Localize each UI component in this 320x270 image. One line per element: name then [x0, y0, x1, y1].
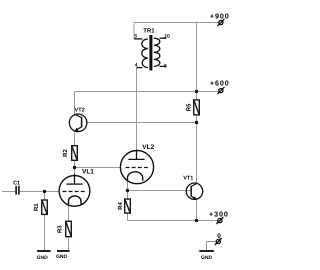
- svg-text:VT1: VT1: [183, 176, 193, 182]
- svg-text:C1: C1: [13, 180, 20, 186]
- svg-text:0: 0: [217, 233, 221, 240]
- svg-text:9: 9: [164, 63, 167, 69]
- svg-text:TR1: TR1: [143, 27, 155, 34]
- svg-text:GND: GND: [37, 255, 49, 261]
- svg-text:GND: GND: [201, 255, 213, 261]
- svg-text:VT2: VT2: [75, 108, 85, 114]
- svg-text:R5: R5: [186, 103, 193, 111]
- svg-text:+300: +300: [209, 209, 229, 218]
- svg-text:+600: +600: [210, 79, 230, 88]
- svg-text:GND: GND: [56, 254, 68, 260]
- svg-text:+900: +900: [210, 11, 230, 20]
- svg-text:VL1: VL1: [82, 169, 94, 176]
- svg-text:R2: R2: [62, 149, 69, 157]
- svg-text:R1: R1: [33, 203, 40, 211]
- svg-text:R4: R4: [117, 202, 124, 210]
- svg-text:VL2: VL2: [142, 144, 154, 151]
- svg-text:10: 10: [164, 34, 170, 40]
- svg-text:4: 4: [135, 63, 138, 69]
- svg-text:R3: R3: [57, 225, 64, 233]
- svg-text:3: 3: [134, 34, 137, 40]
